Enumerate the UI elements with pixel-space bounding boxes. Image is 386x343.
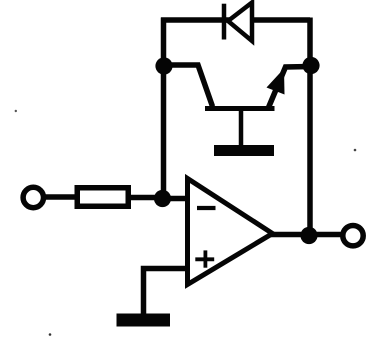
input terminal	[23, 187, 43, 207]
wire node A to op-amp inverting input	[161, 196, 189, 202]
wire top feedback	[161, 17, 310, 23]
transistor Q1 emitter arrow	[267, 69, 285, 95]
node junction top left	[155, 57, 172, 74]
resistor R1	[77, 188, 128, 207]
node A junction at inverting input	[154, 190, 171, 207]
op-amp minus label	[197, 206, 216, 210]
node junction top right	[302, 57, 319, 74]
op-amp U1	[188, 179, 273, 285]
diode D1 triangle	[228, 3, 252, 42]
wire left feedback vertical	[161, 18, 167, 200]
wire right feedback vertical	[307, 18, 313, 237]
wire input terminal to resistor	[43, 194, 77, 200]
wire op-amp output	[271, 232, 344, 238]
output terminal	[343, 226, 363, 246]
node junction at output	[300, 227, 317, 244]
transistor Q1 emitter wire	[269, 67, 312, 108]
op-amp plus label	[195, 250, 214, 267]
ground at noninverting input	[117, 314, 171, 327]
wire resistor to node A	[129, 195, 164, 201]
diode D1 cathode bar	[222, 4, 227, 40]
wire op-amp noninverting input	[144, 269, 190, 317]
transistor Q1 collector wire	[164, 65, 213, 107]
ground under transistor base	[214, 145, 274, 156]
transistor Q1 base lead	[239, 109, 244, 148]
transistor Q1 base bar	[205, 106, 275, 111]
